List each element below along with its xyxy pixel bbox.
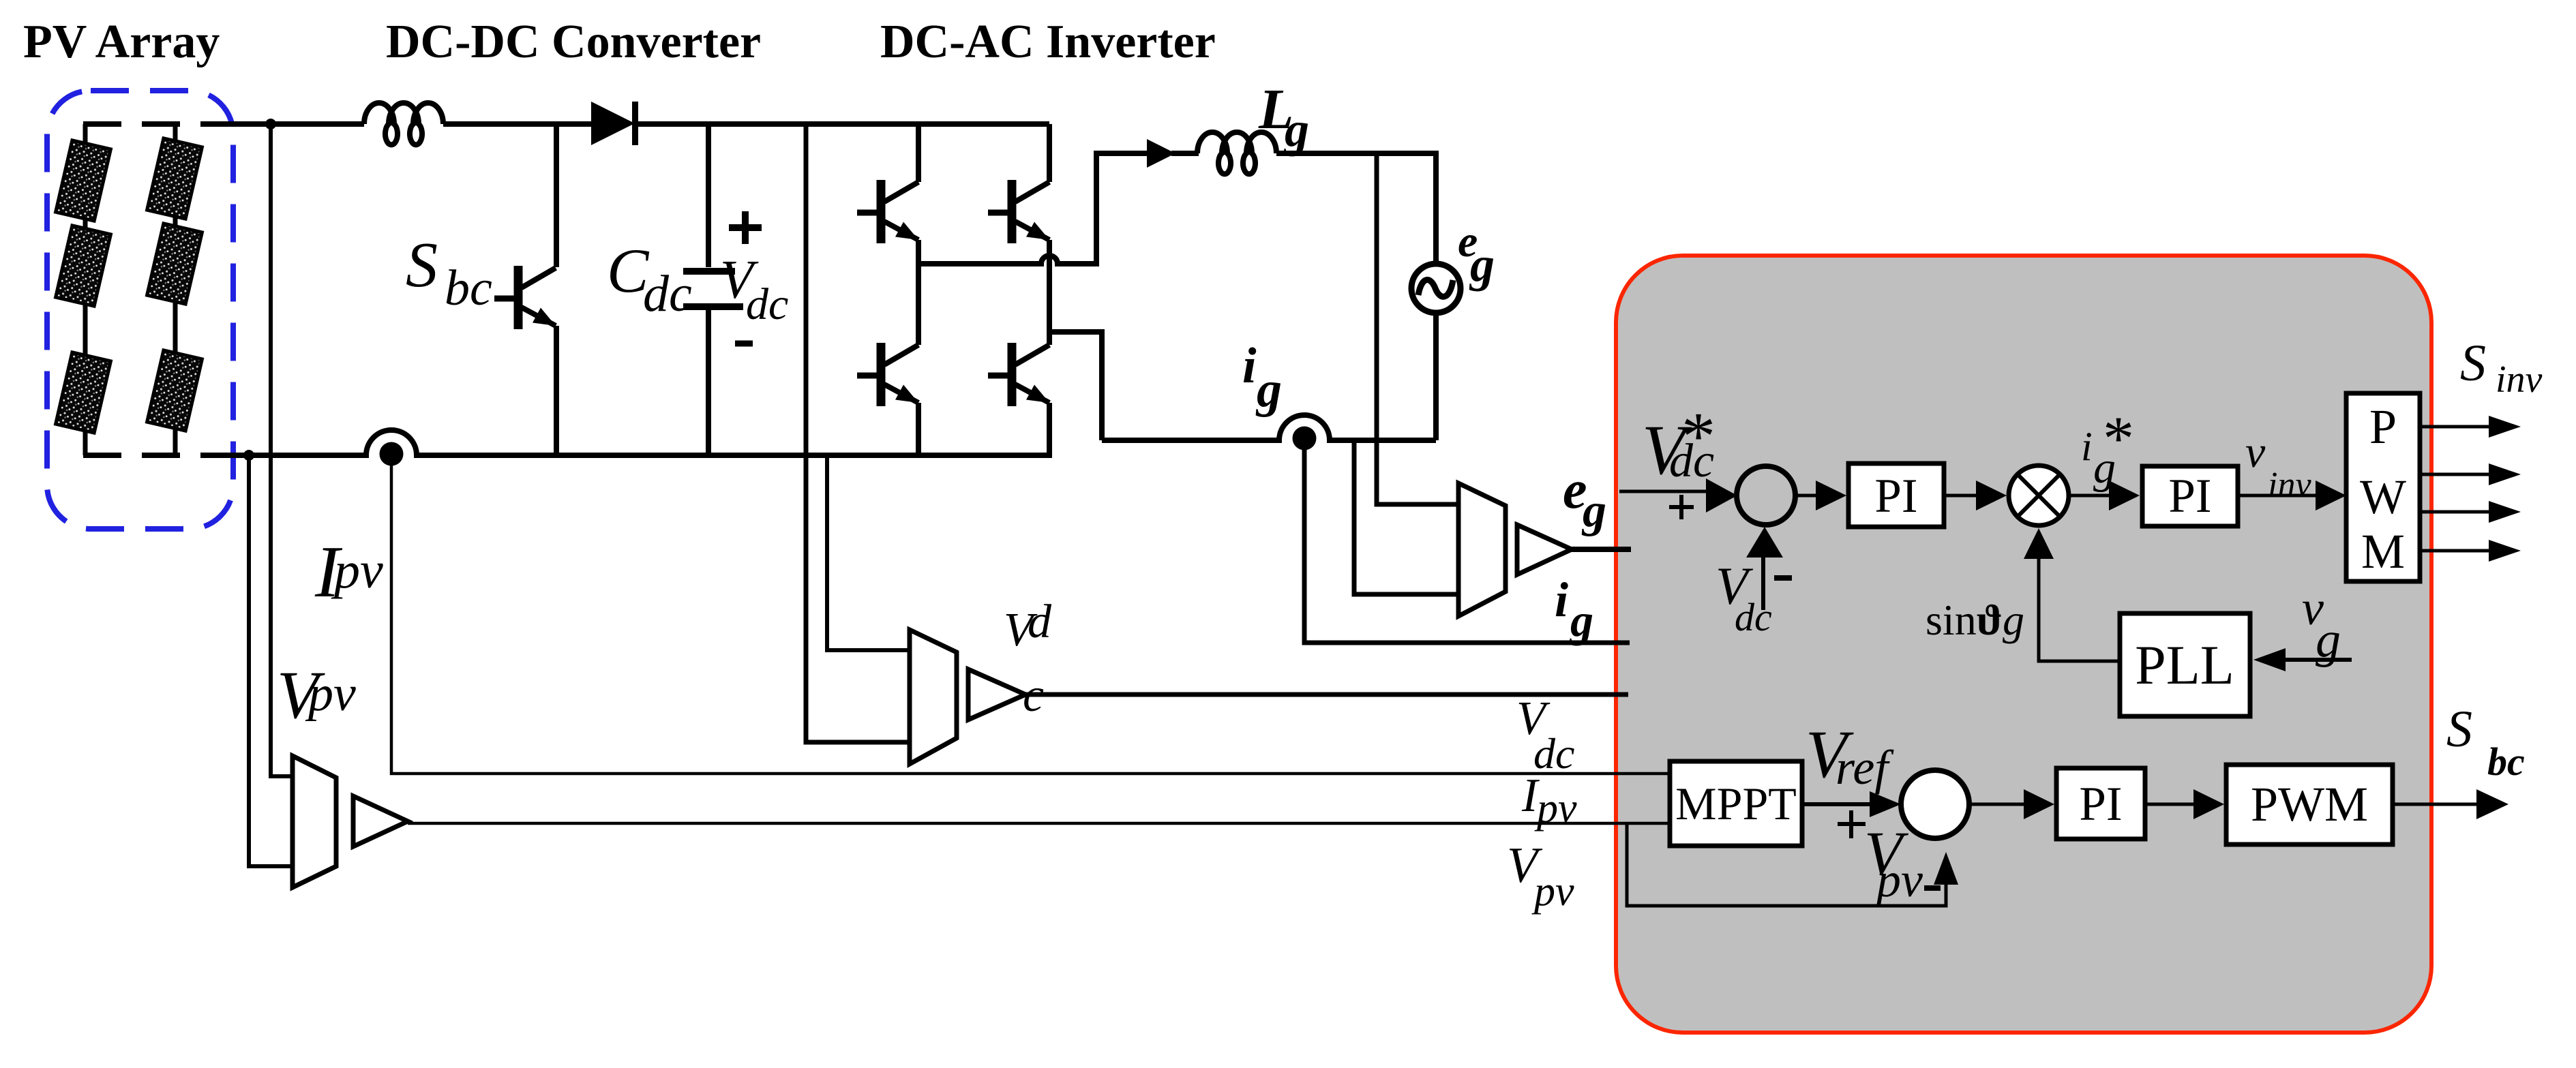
wire: right leg mid to Q4 [1047, 332, 1052, 345]
svg-text:bc: bc [2487, 739, 2525, 784]
svg-text:dc: dc [1735, 595, 1772, 639]
arrow PI1 to multiplier [1944, 494, 1981, 498]
wire: eg to bottom [1433, 313, 1439, 440]
wire: Q1 emitter to midpoint [916, 240, 921, 264]
label + (Vdc polarity) [729, 211, 762, 244]
svg-text:ref: ref [1836, 740, 1894, 795]
svg-text:W: W [2360, 470, 2406, 524]
arrow PI3 to PWM2 [2145, 803, 2197, 806]
wire: Sbc emitter [554, 326, 559, 455]
svg-text:DC-DC Converter: DC-DC Converter [386, 16, 761, 68]
svg-text:i: i [1242, 338, 1257, 394]
svg-text:PI: PI [1874, 470, 1917, 523]
wire: PV column 2 string [173, 124, 178, 455]
svg-text:sinϑg: sinϑg [1926, 596, 2024, 644]
svg-text:pv: pv [1531, 868, 1574, 915]
PV panel 1 [56, 140, 111, 221]
arrow sum2 to PI3 [1968, 803, 2024, 806]
svg-text:PI: PI [2079, 778, 2122, 831]
svg-text:v: v [2245, 427, 2266, 477]
svg-text:S: S [2460, 335, 2486, 392]
diode D1 [591, 102, 635, 145]
label + (sum1) [1669, 495, 1694, 519]
MPPT block [1670, 761, 1802, 846]
svg-text:g: g [2316, 612, 2341, 668]
PV panel 4 [147, 138, 203, 219]
PV panel 3 [56, 352, 111, 433]
label + (sum2) [1838, 810, 1866, 838]
node: ig current sensor dot [1293, 427, 1317, 451]
svg-text:PLL: PLL [2135, 634, 2234, 696]
svg-text:S: S [406, 230, 438, 301]
svg-text:g: g [1283, 102, 1309, 157]
multiplier M1 [2009, 466, 2069, 525]
svg-text:PWM: PWM [2251, 777, 2368, 831]
transistor Q2 (upper-right) [988, 180, 1049, 243]
PWM block (boost) [2226, 765, 2393, 844]
transistor Sbc [494, 266, 556, 329]
wire: Vpv+ sense line [271, 124, 293, 776]
wire: right leg top [1047, 124, 1052, 182]
wire: phase B output [1049, 332, 1102, 440]
svg-text:pv: pv [305, 666, 356, 722]
wire: Vdc signal line [1025, 692, 1628, 697]
wire: eg signal line [1572, 547, 1631, 552]
node: junction top wire / Vpv+ [265, 119, 276, 129]
label - (Vdc polarity) [735, 341, 753, 347]
svg-text:*: * [1681, 398, 1716, 474]
svg-text:dc: dc [1533, 729, 1574, 778]
svg-text:P: P [2369, 399, 2397, 454]
wire: PV column 1 string [83, 124, 88, 455]
arrow MPPT to sum2 [1803, 802, 1874, 806]
wire: PV top dashed bus [83, 121, 232, 127]
arrows Sinv outputs [2420, 425, 2490, 429]
PV panel 5 [147, 224, 203, 304]
Vpv sensor triangle [353, 796, 408, 846]
PV panel 2 [56, 226, 111, 306]
wire: eg+ sense tap [1377, 153, 1458, 504]
wire: Vpv signal line [408, 822, 1670, 825]
PI block 3 [2056, 768, 2145, 839]
wire Vdc feedback arrow into sum1 [1761, 555, 1765, 610]
controller block background [1616, 256, 2431, 1033]
svg-text:S: S [2446, 701, 2472, 758]
PV array dashed enclosure [47, 91, 233, 529]
wire: Vpv- sense line [249, 455, 293, 866]
PWM block (inverter) [2346, 393, 2420, 581]
arrow sum1 to PI1 [1796, 494, 1819, 498]
transistor Q3 (lower-left) [857, 343, 918, 406]
wire PLL to multiplier [2039, 558, 2120, 661]
svg-text:MPPT: MPPT [1675, 778, 1797, 829]
wire: left leg mid to Q3 [916, 264, 921, 345]
arrow PI2 to PWM [2238, 494, 2317, 498]
PLL block [2120, 613, 2250, 716]
svg-text:dc: dc [643, 265, 692, 322]
svg-text:inv: inv [2268, 466, 2311, 504]
svg-text:i: i [2081, 424, 2093, 469]
svg-text:*: * [2103, 403, 2134, 473]
svg-text:pv: pv [331, 542, 383, 599]
label - (sum2) [1924, 885, 1941, 891]
eg sensor trapezoid [1458, 483, 1506, 616]
capacitor Cdc top lead [706, 124, 711, 267]
svg-text:dc: dc [746, 279, 788, 329]
svg-text:pv: pv [1873, 853, 1923, 907]
arrow multiplier to PI2 [2069, 494, 2112, 498]
summing junction S2 [1901, 770, 1969, 838]
wire: phase A output with crossover hop [918, 153, 1152, 264]
svg-text:g: g [1581, 485, 1606, 537]
wire: Sbc collector [554, 124, 559, 267]
Vdc sensor trapezoid [910, 630, 957, 764]
svg-text:pv: pv [1534, 785, 1577, 831]
svg-text:d: d [1028, 596, 1052, 648]
svg-text:inv: inv [2496, 358, 2543, 401]
svg-text:i: i [1555, 573, 1568, 627]
arrow Sbc output [2393, 803, 2478, 806]
PI block 2 [2142, 466, 2238, 526]
wire: Lg to grid [1276, 153, 1436, 264]
node Vdc* reference input [1619, 490, 1708, 493]
node: junction bottom wire / Vpv- [243, 450, 254, 461]
PV panel 6 [147, 350, 203, 431]
transistor Q1 (upper-left) [857, 180, 918, 243]
arrow: grid current direction [1147, 139, 1175, 168]
svg-text:DC-AC Inverter: DC-AC Inverter [880, 16, 1216, 68]
svg-text:PI: PI [2168, 470, 2211, 523]
svg-text:g: g [1469, 237, 1495, 292]
summing junction S1 [1737, 466, 1795, 525]
inverter bridge: left leg top [916, 124, 921, 182]
svg-text:g: g [1255, 362, 1282, 418]
inductor L boost [364, 103, 443, 144]
eg sensor triangle [1517, 525, 1572, 575]
PI block 1 [1848, 463, 1944, 527]
wire: Q2 emitter to midpoint [1047, 240, 1052, 332]
label - (sum1) [1774, 575, 1792, 581]
svg-text:M: M [2361, 524, 2405, 579]
wire: Vdc+ sense from top bus [806, 124, 910, 742]
svg-text:bc: bc [445, 260, 492, 316]
wire: bottom DC bus [228, 430, 1052, 455]
capacitor Cdc bottom lead [706, 309, 711, 455]
wire: arrow to Lg [1171, 151, 1199, 156]
wire Vpv feedback to sum2 [1627, 823, 1946, 906]
wire: top DC bus [228, 121, 1049, 127]
wire: Q4 emitter to bottom bus [1047, 403, 1052, 455]
node: Ipv current sensor dot [380, 442, 404, 466]
AC source eg [1411, 264, 1461, 313]
arrow vg into PLL [2284, 658, 2352, 662]
svg-text:c: c [1023, 669, 1044, 722]
capacitor Cdc plates [683, 271, 743, 307]
svg-text:PV Array: PV Array [23, 16, 220, 68]
wire: eg- sense tap [1354, 440, 1458, 594]
wire: ig signal line [1304, 438, 1630, 643]
wire: Ipv sense line to MPPT [391, 454, 1670, 774]
wire: grid bottom with ig hop [1102, 415, 1436, 440]
wire: Vdc- sense from bottom bus [827, 455, 910, 650]
Vpv sensor trapezoid [293, 756, 336, 887]
Vdc sensor triangle [968, 669, 1025, 720]
wire: Q3 emitter to bottom bus [916, 403, 921, 455]
wire: PV bottom dashed bus [83, 453, 232, 458]
transistor Q4 (lower-right) [988, 343, 1049, 406]
svg-text:g: g [1569, 594, 1593, 646]
inductor Lg [1197, 132, 1276, 174]
